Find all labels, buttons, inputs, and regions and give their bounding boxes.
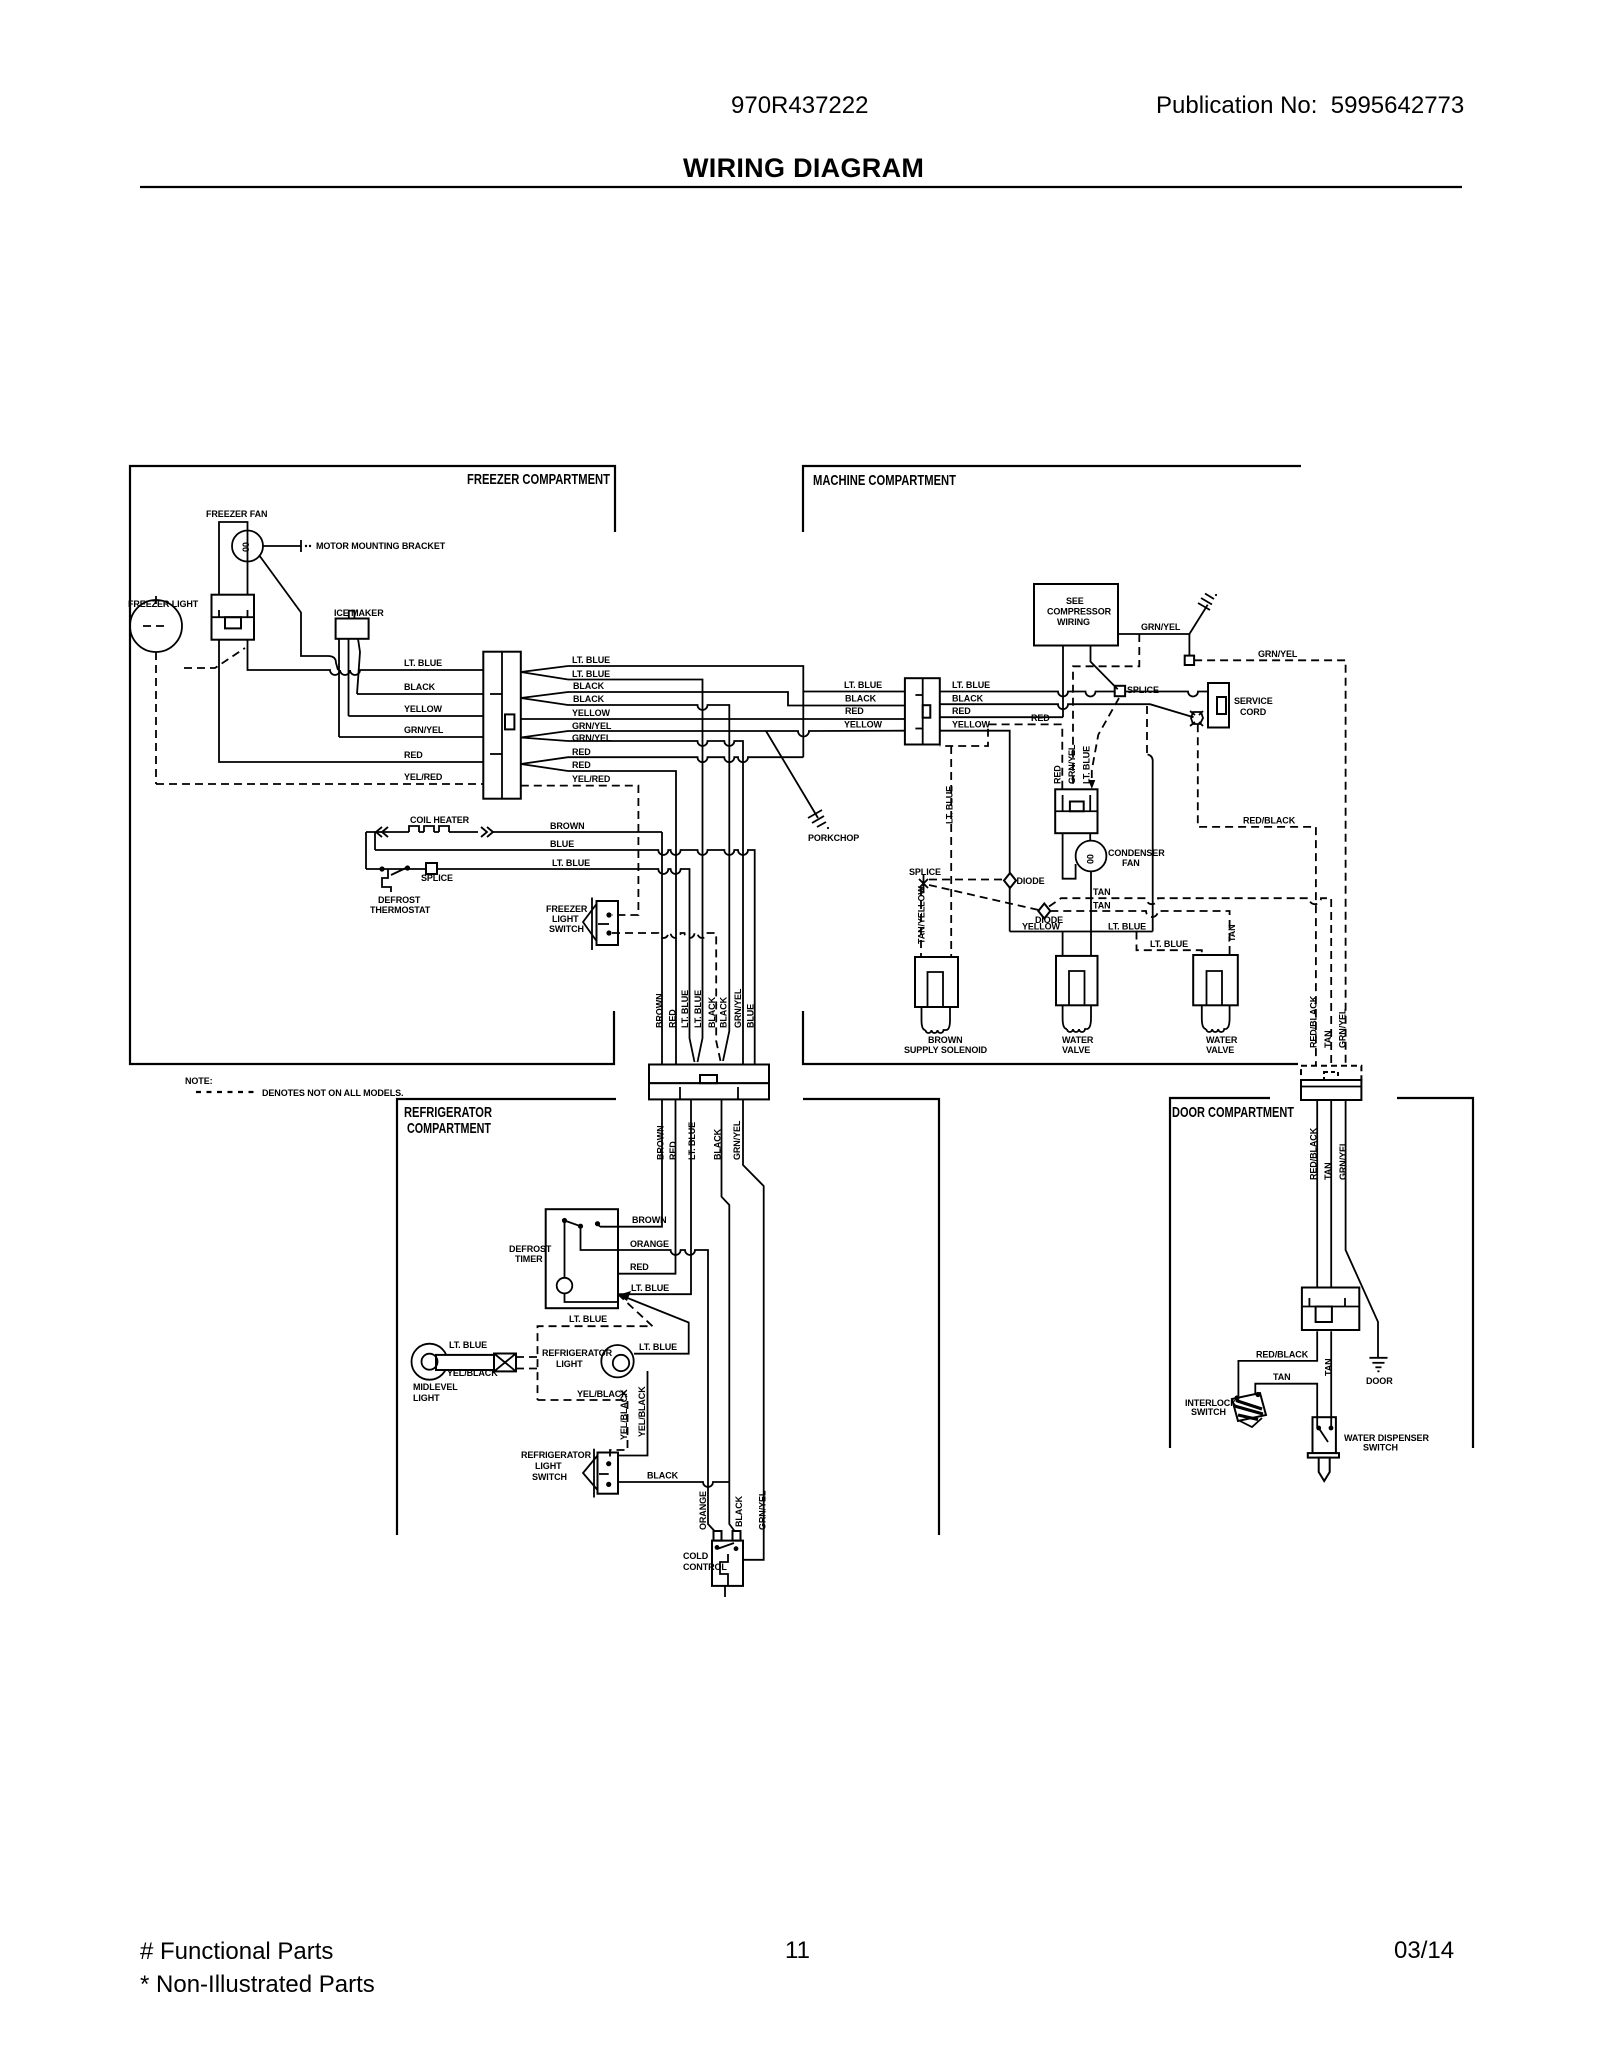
ice maker pin grn/yel bbox=[338, 639, 340, 737]
svg-text:Publication No: 5995642773: Publication No: 5995642773 bbox=[1156, 92, 1464, 119]
wire black bus to machine (step at 788) bbox=[568, 692, 905, 706]
refrigerator light bbox=[601, 1345, 633, 1377]
svg-text:PORKCHOP: PORKCHOP bbox=[808, 833, 859, 843]
dashed yel/black to switch bbox=[538, 1400, 628, 1458]
svg-text:TAN: TAN bbox=[1093, 901, 1111, 911]
wire tan to dispenser switch bbox=[1330, 1331, 1332, 1428]
svg-text:970R437222: 970R437222 bbox=[731, 92, 868, 119]
bundle rotated labels above connector bbox=[655, 988, 756, 1028]
svg-text:YEL/BLACK: YEL/BLACK bbox=[447, 1368, 498, 1378]
svg-text:COLD: COLD bbox=[683, 1551, 709, 1561]
wire black switch to cold control bbox=[618, 1482, 729, 1487]
svg-text:MIDLEVEL: MIDLEVEL bbox=[413, 1382, 458, 1392]
svg-text:BLACK: BLACK bbox=[845, 694, 877, 704]
door connector 2 bbox=[1302, 1288, 1359, 1331]
wire brown heater bbox=[493, 831, 662, 833]
svg-text:RED/BLACK: RED/BLACK bbox=[1309, 1127, 1319, 1180]
svg-text:LT. BLUE: LT. BLUE bbox=[572, 655, 610, 665]
machine connector bbox=[905, 678, 940, 744]
svg-text:BLACK: BLACK bbox=[707, 996, 717, 1028]
svg-text:COMPRESSOR: COMPRESSOR bbox=[1047, 607, 1112, 617]
svg-text:YELLOW: YELLOW bbox=[572, 708, 611, 718]
svg-text:FREEZER FAN: FREEZER FAN bbox=[206, 509, 267, 519]
svg-text:RED: RED bbox=[1031, 713, 1050, 723]
svg-text:TAN: TAN bbox=[1093, 887, 1111, 897]
svg-text:ORANGE: ORANGE bbox=[630, 1239, 669, 1249]
svg-text:LT. BLUE: LT. BLUE bbox=[1082, 746, 1092, 784]
svg-text:DIODE: DIODE bbox=[1017, 876, 1045, 886]
wire lt. blue 2 to bundle bbox=[568, 680, 703, 1063]
svg-text:YEL/BLACK: YEL/BLACK bbox=[637, 1386, 647, 1437]
svg-text:BROWN: BROWN bbox=[928, 1035, 963, 1045]
freezer connector bbox=[483, 652, 521, 799]
svg-text:TAN: TAN bbox=[1273, 1372, 1291, 1382]
wire yellow bottom bbox=[1010, 931, 1153, 933]
svg-text:GRN/YEL: GRN/YEL bbox=[572, 721, 612, 731]
svg-text:REFRIGERATOR: REFRIGERATOR bbox=[542, 1348, 613, 1358]
dashed lt. blue to valve 2 bbox=[1137, 932, 1202, 956]
relay pin labels bbox=[1053, 744, 1092, 784]
wire lt. blue (freezer left) bbox=[248, 640, 484, 675]
svg-text:LT. BLUE: LT. BLUE bbox=[639, 1342, 677, 1352]
svg-text:BROWN: BROWN bbox=[550, 821, 585, 831]
wire yellow machine bus bbox=[940, 731, 1010, 932]
svg-text:LT. BLUE: LT. BLUE bbox=[449, 1340, 487, 1350]
rotated labels above door connector bbox=[1309, 995, 1348, 1048]
svg-text:YEL/RED: YEL/RED bbox=[404, 772, 443, 782]
diode 1 bbox=[1004, 873, 1045, 888]
water valve 2 bbox=[1193, 955, 1238, 1032]
svg-text:RED: RED bbox=[572, 747, 591, 757]
svg-text:ORANGE: ORANGE bbox=[698, 1491, 708, 1530]
svg-text:RED/BLACK: RED/BLACK bbox=[1309, 995, 1319, 1048]
service cord connector bbox=[1208, 683, 1229, 728]
svg-text:LT. BLUE: LT. BLUE bbox=[631, 1283, 669, 1293]
ice maker pin black bbox=[357, 639, 360, 694]
svg-text:BROWN: BROWN bbox=[632, 1215, 667, 1225]
dashed tan upper bbox=[1049, 898, 1331, 1065]
svg-text:YELLOW: YELLOW bbox=[404, 704, 443, 714]
lt. blue right riser bbox=[1148, 755, 1153, 932]
svg-text:DOOR COMPARTMENT: DOOR COMPARTMENT bbox=[1172, 1104, 1294, 1121]
heater left frame bbox=[366, 832, 375, 869]
svg-text:00: 00 bbox=[1086, 854, 1096, 864]
svg-text:MACHINE COMPARTMENT: MACHINE COMPARTMENT bbox=[813, 472, 956, 489]
svg-text:DEFROST: DEFROST bbox=[378, 895, 421, 905]
svg-text:NOTE:: NOTE: bbox=[185, 1076, 213, 1086]
svg-text:GRN/YEL: GRN/YEL bbox=[758, 1490, 768, 1530]
svg-text:COMPARTMENT: COMPARTMENT bbox=[407, 1120, 491, 1137]
svg-text:GRN/YEL: GRN/YEL bbox=[1067, 744, 1077, 784]
water valve 1 bbox=[1056, 956, 1098, 1032]
wire freezer light switch output (dashed) bbox=[612, 933, 721, 1061]
svg-text:SWITCH: SWITCH bbox=[549, 924, 584, 934]
dashed splice to diode2 bbox=[929, 885, 1039, 910]
svg-text:RED/BLACK: RED/BLACK bbox=[1243, 816, 1296, 826]
svg-text:CORD: CORD bbox=[1240, 707, 1267, 717]
svg-text:GRN/YEL: GRN/YEL bbox=[1338, 1008, 1348, 1048]
svg-text:GRN/YEL: GRN/YEL bbox=[732, 1120, 742, 1160]
coil heater element bbox=[366, 826, 493, 837]
svg-text:# Functional Parts: # Functional Parts bbox=[140, 1938, 333, 1965]
dashed tan lower bbox=[1050, 911, 1229, 955]
wire yellow (freezer left) bbox=[349, 715, 484, 717]
wire grn/yel 2 to bundle bbox=[568, 741, 743, 1064]
wire grn/yel (freezer left) bbox=[339, 736, 483, 738]
splice square (grn/yel) bbox=[1185, 656, 1194, 665]
svg-text:GRN/YEL: GRN/YEL bbox=[404, 725, 444, 735]
svg-text:TAN: TAN bbox=[1324, 1358, 1334, 1376]
wire blue heater bbox=[375, 850, 755, 1064]
svg-text:LT. BLUE: LT. BLUE bbox=[569, 1314, 607, 1324]
defrost timer bbox=[546, 1209, 618, 1308]
water dispenser switch bbox=[1308, 1417, 1339, 1481]
dashed red from bus to relay bbox=[940, 724, 1063, 788]
svg-text:VALVE: VALVE bbox=[1062, 1045, 1090, 1055]
svg-text:SPLICE: SPLICE bbox=[421, 873, 453, 883]
svg-text:RED: RED bbox=[630, 1262, 649, 1272]
svg-text:SPLICE: SPLICE bbox=[1127, 685, 1159, 695]
rotated labels door wires bbox=[1309, 1127, 1349, 1180]
wire tan door bbox=[1330, 1100, 1332, 1288]
freezer fan motor bbox=[232, 531, 263, 562]
svg-text:TAN/YELLOW: TAN/YELLOW bbox=[917, 886, 927, 944]
wire grn/yel door to ground bbox=[1346, 1100, 1378, 1358]
midlevel light bbox=[412, 1344, 517, 1380]
splice (service cord) bbox=[1190, 711, 1203, 726]
wire brown down to connector bbox=[661, 832, 663, 1064]
wire yel/red (freezer left, dashed) bbox=[156, 783, 483, 785]
ice maker pin yellow bbox=[348, 639, 350, 716]
splice (tan/yellow) bbox=[909, 867, 941, 893]
main harness connector bbox=[649, 1065, 769, 1100]
svg-text:RED: RED bbox=[845, 706, 864, 716]
midlevel dashed stubs bbox=[516, 1357, 538, 1369]
svg-text:YELLOW: YELLOW bbox=[844, 720, 883, 730]
svg-text:DENOTES NOT ON ALL MODELS.: DENOTES NOT ON ALL MODELS. bbox=[262, 1088, 403, 1098]
svg-text:FREEZER: FREEZER bbox=[546, 904, 588, 914]
svg-text:BLACK: BLACK bbox=[952, 694, 984, 704]
wire red/black door bbox=[1316, 1100, 1318, 1288]
svg-text:WATER: WATER bbox=[1206, 1035, 1238, 1045]
svg-text:03/14: 03/14 bbox=[1394, 1937, 1454, 1964]
wire compressor right pin to splice bbox=[1091, 646, 1118, 690]
wire yel/red dashed to light switch bbox=[521, 786, 639, 915]
svg-text:BLACK: BLACK bbox=[734, 1495, 744, 1527]
svg-text:WATER: WATER bbox=[1062, 1035, 1094, 1045]
svg-text:LIGHT: LIGHT bbox=[556, 1359, 583, 1369]
freezer light switch bbox=[583, 898, 618, 951]
refrigerator compartment border bbox=[397, 1099, 939, 1535]
svg-text:RED: RED bbox=[952, 706, 971, 716]
bundle rotated labels below connector bbox=[656, 1120, 743, 1160]
svg-text:CONTROL: CONTROL bbox=[683, 1562, 727, 1572]
svg-text:LT. BLUE: LT. BLUE bbox=[952, 680, 990, 690]
splice (defrost thermostat) bbox=[421, 863, 453, 883]
defrost thermostat contacts bbox=[379, 865, 410, 892]
relay overload connector bbox=[1055, 789, 1097, 833]
wire to water valve 1 left pin bbox=[1062, 932, 1064, 956]
door connector bbox=[1301, 1066, 1361, 1100]
svg-text:RED: RED bbox=[1053, 765, 1063, 784]
svg-text:LIGHT: LIGHT bbox=[413, 1393, 440, 1403]
note legend bbox=[185, 1076, 403, 1098]
dashed splice to diode1 bbox=[929, 879, 1004, 881]
svg-text:REFRIGERATOR: REFRIGERATOR bbox=[521, 1450, 592, 1460]
wire black down bbox=[722, 1099, 735, 1531]
wire compressor left pin bbox=[1062, 646, 1064, 718]
freezer light bulb bbox=[130, 596, 182, 652]
svg-text:BLACK: BLACK bbox=[404, 682, 436, 692]
wire brown to defrost timer bbox=[600, 1099, 662, 1226]
svg-text:GRN/YEL: GRN/YEL bbox=[1141, 622, 1181, 632]
door compartment border bbox=[1170, 1098, 1473, 1448]
machine compartment border bbox=[803, 466, 1301, 1064]
svg-text:LT. BLUE: LT. BLUE bbox=[687, 1122, 697, 1160]
wire lt. blue timer to refrigerator light bbox=[618, 1294, 689, 1354]
svg-text:BLACK: BLACK bbox=[573, 694, 605, 704]
compressor wiring box bbox=[1034, 584, 1118, 646]
svg-text:LT. BLUE: LT. BLUE bbox=[844, 680, 882, 690]
svg-text:BLACK: BLACK bbox=[647, 1471, 679, 1481]
svg-text:LT. BLUE: LT. BLUE bbox=[1150, 939, 1188, 949]
svg-text:DOOR: DOOR bbox=[1366, 1376, 1393, 1386]
svg-text:LT. BLUE: LT. BLUE bbox=[1108, 922, 1146, 932]
title rule bbox=[140, 186, 1462, 188]
svg-text:SERVICE: SERVICE bbox=[1234, 696, 1273, 706]
svg-text:GRN/YEL: GRN/YEL bbox=[1258, 649, 1298, 659]
wire red/black to interlock bbox=[1238, 1331, 1317, 1397]
svg-text:TAN: TAN bbox=[1323, 1030, 1333, 1048]
ice maker bbox=[336, 611, 369, 639]
dashed lt.blue splice to relay with arrow bbox=[1088, 698, 1119, 789]
freezer fan frame bbox=[219, 522, 248, 594]
svg-text:YEL/BLACK: YEL/BLACK bbox=[619, 1389, 629, 1440]
svg-text:ICE MAKER: ICE MAKER bbox=[334, 608, 384, 618]
svg-text:WIRING DIAGRAM: WIRING DIAGRAM bbox=[683, 153, 924, 183]
svg-text:DIODE: DIODE bbox=[1035, 915, 1063, 925]
wire lt. blue machine bus bbox=[940, 692, 1115, 697]
svg-text:SEE: SEE bbox=[1066, 596, 1084, 606]
wire freezer light to yel/red (dashed) bbox=[155, 652, 157, 784]
wire black (freezer left) bbox=[357, 693, 483, 695]
wire fan motor to ice maker drop bbox=[259, 555, 338, 670]
svg-text:GRN/YEL: GRN/YEL bbox=[1338, 1140, 1348, 1180]
svg-text:YELLOW: YELLOW bbox=[952, 720, 991, 730]
cold control bbox=[712, 1531, 743, 1597]
svg-text:00: 00 bbox=[241, 542, 251, 552]
svg-text:GRN/YEL: GRN/YEL bbox=[733, 988, 743, 1028]
arrowhead at timer corner bbox=[618, 1291, 631, 1301]
freezer connector fanout pins bbox=[521, 666, 568, 771]
svg-text:BLACK: BLACK bbox=[573, 681, 605, 691]
svg-text:WATER DISPENSER: WATER DISPENSER bbox=[1344, 1433, 1429, 1443]
svg-text:RED: RED bbox=[668, 1009, 678, 1028]
dashed grn/yel to relay bbox=[1073, 634, 1139, 789]
svg-text:SUPPLY SOLENOID: SUPPLY SOLENOID bbox=[904, 1045, 988, 1055]
svg-text:LIGHT: LIGHT bbox=[535, 1461, 562, 1471]
svg-text:WIRING: WIRING bbox=[1057, 617, 1090, 627]
svg-text:LT. BLUE: LT. BLUE bbox=[693, 990, 703, 1028]
svg-text:DEFROST: DEFROST bbox=[509, 1244, 552, 1254]
wire black machine bus bbox=[940, 704, 1194, 717]
porkchop lead bbox=[766, 731, 829, 829]
svg-text:TAN: TAN bbox=[1323, 1162, 1333, 1180]
wire grn/yel down bbox=[743, 1099, 764, 1559]
door ground bbox=[1369, 1358, 1387, 1372]
svg-text:LT. BLUE: LT. BLUE bbox=[572, 669, 610, 679]
dashed lt. blue to midlevel bbox=[538, 1294, 653, 1400]
wire red 2 to bundle bbox=[568, 771, 676, 1064]
wire yel/black refrigerator light bbox=[618, 1371, 648, 1456]
svg-text:BLUE: BLUE bbox=[550, 839, 574, 849]
svg-text:SWITCH: SWITCH bbox=[1363, 1443, 1398, 1453]
svg-text:CONDENSER: CONDENSER bbox=[1108, 848, 1165, 858]
rotated labels cold control bbox=[698, 1490, 768, 1530]
freezer compartment border bbox=[130, 466, 615, 1064]
svg-text:SWITCH: SWITCH bbox=[1191, 1407, 1226, 1417]
wire lt. blue to service cord bbox=[1125, 692, 1208, 697]
svg-text:BROWN: BROWN bbox=[656, 1126, 666, 1161]
wire orange from timer bbox=[581, 1226, 715, 1531]
wire grn/yel down to splice square bbox=[1188, 634, 1190, 656]
refrigerator light switch bbox=[583, 1449, 618, 1498]
svg-text:LIGHT: LIGHT bbox=[552, 914, 579, 924]
wire lt. blue to defrost timer bbox=[618, 1099, 691, 1294]
svg-text:BROWN: BROWN bbox=[655, 994, 665, 1029]
wire red machine bus bbox=[940, 716, 1063, 718]
dashed tan/yellow to solenoid bbox=[920, 888, 922, 957]
freezer fan connector bbox=[212, 595, 255, 640]
svg-text:BLACK: BLACK bbox=[719, 996, 729, 1028]
svg-text:LT. BLUE: LT. BLUE bbox=[552, 858, 590, 868]
svg-text:YEL/RED: YEL/RED bbox=[572, 774, 611, 784]
svg-text:RED/BLACK: RED/BLACK bbox=[1256, 1350, 1309, 1360]
interlock switch bbox=[1232, 1392, 1266, 1427]
svg-text:LT. BLUE: LT. BLUE bbox=[945, 786, 955, 824]
condenser fan bbox=[1063, 833, 1107, 956]
svg-text:TIMER: TIMER bbox=[515, 1254, 543, 1264]
svg-text:MOTOR MOUNTING BRACKET: MOTOR MOUNTING BRACKET bbox=[316, 541, 446, 551]
wire lt. blue bus to machine (step at 803) bbox=[568, 666, 905, 692]
svg-text:TAN: TAN bbox=[1227, 924, 1237, 942]
wire grn/yel 1 to machine yellow bbox=[568, 731, 905, 737]
motor mounting bracket lead bbox=[263, 540, 311, 552]
svg-text:LT. BLUE: LT. BLUE bbox=[680, 990, 690, 1028]
splice (lt. blue bus) bbox=[1115, 686, 1125, 696]
wire black 2 to bundle bbox=[568, 705, 729, 1061]
ground (compressor) bbox=[1189, 594, 1217, 635]
wire red/black dashed bbox=[1198, 724, 1316, 1065]
svg-text:RED: RED bbox=[404, 750, 423, 760]
wire yellow bus to machine bbox=[521, 718, 905, 720]
svg-text:THERMOSTAT: THERMOSTAT bbox=[370, 905, 431, 915]
supply solenoid bbox=[915, 957, 958, 1033]
svg-text:COIL HEATER: COIL HEATER bbox=[410, 815, 470, 825]
wire tan interlock to dispenser bbox=[1255, 1384, 1317, 1428]
svg-text:11: 11 bbox=[785, 1937, 810, 1964]
wire grn/yel compressor bbox=[1118, 633, 1189, 635]
svg-text:SWITCH: SWITCH bbox=[532, 1472, 567, 1482]
wire red to defrost timer bbox=[618, 1099, 676, 1273]
wire grn/yel dashed to door bbox=[1194, 660, 1346, 1065]
svg-text:FREEZER COMPARTMENT: FREEZER COMPARTMENT bbox=[467, 471, 610, 488]
svg-text:RED: RED bbox=[572, 760, 591, 770]
wire red (freezer left) bbox=[219, 640, 483, 762]
svg-text:VALVE: VALVE bbox=[1206, 1045, 1234, 1055]
svg-text:LT. BLUE: LT. BLUE bbox=[404, 658, 442, 668]
svg-text:SPLICE: SPLICE bbox=[909, 867, 941, 877]
svg-text:* Non-Illustrated Parts: * Non-Illustrated Parts bbox=[140, 1971, 375, 1998]
svg-text:REFRIGERATOR: REFRIGERATOR bbox=[404, 1104, 492, 1121]
svg-text:FAN: FAN bbox=[1122, 858, 1140, 868]
wire red 1 to x803 riser bbox=[568, 757, 803, 762]
diode 2 bbox=[1035, 904, 1063, 926]
vertical x803 continuation to red line bbox=[802, 692, 804, 758]
svg-text:RED: RED bbox=[668, 1141, 678, 1160]
wire lt. blue heater bbox=[366, 869, 695, 1062]
svg-text:BLUE: BLUE bbox=[745, 1004, 755, 1028]
wire freezer light to fan connector (dashed) bbox=[184, 648, 245, 668]
